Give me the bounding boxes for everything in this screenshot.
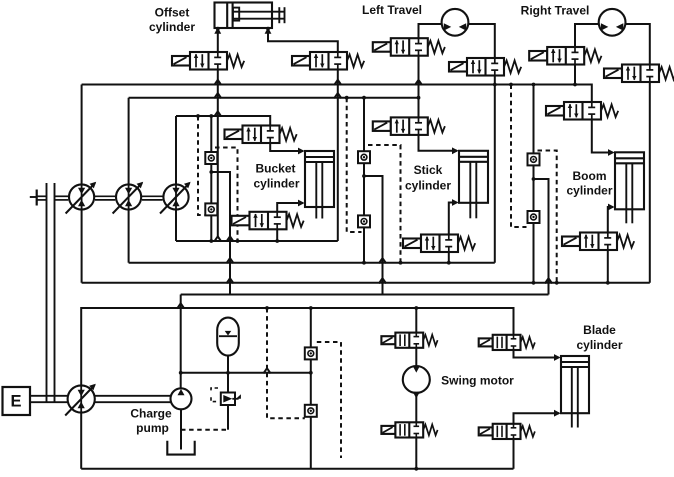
junction boom check line / secondary [532,177,536,181]
blade valve upper [479,335,535,350]
wire lower blade valve to cylinder rod port [514,413,560,424]
wire bottom check-valve line [310,308,312,469]
junction pilot supply / swing pilot [265,306,269,310]
wire right travel motor left port [575,24,599,47]
wire bucket check-valve line [210,116,212,241]
wire swing motor column [415,308,417,333]
crossing hop V1 riser over bus2 [214,93,221,98]
wire charge pump to tank [180,409,182,449]
svg-text:Offset: Offset [155,6,190,20]
pilot pump P4 (variable displacement) [65,384,96,416]
wire accumulator drop [227,356,229,373]
junction bus2 / stick check line [362,96,366,100]
svg-text:cylinder: cylinder [576,338,622,352]
junction bucket bus / lower valve [275,239,279,243]
pilot check valve bucket lower [205,203,217,215]
wire right travel motor right port [625,24,650,65]
wire left travel valve B return riser [494,76,496,263]
junction bus3 / bucket check line [209,114,213,118]
pump P2 (variable displacement) [113,182,144,214]
pilot check valve bucket upper [205,152,217,164]
right travel valve A [529,47,601,65]
wire right travel valve A riser [574,65,576,85]
stick cylinder head port arrow [452,147,459,154]
bucket cylinder head port arrow [298,148,305,155]
wire bucket valve to bucket cylinder head [270,143,303,151]
wire boom valve to boom cylinder head [592,120,613,153]
wire V2 return riser [337,70,339,242]
wire pump2 case return [128,210,130,262]
pilot line stick right [368,145,401,263]
pump P1 (variable displacement) [66,182,97,214]
pilot check valve stick upper [358,151,370,163]
svg-text:Blade: Blade [583,323,616,337]
shaft pilot pump to charge pump [95,396,171,402]
wire bucket return bus [176,240,338,242]
wire pump2 to supply bus 2 [128,98,130,184]
wire pump3 to supply bus 3 [175,116,177,184]
junction bus1 / boom check line [532,83,536,87]
drive shaft pump1 to pump2 [95,196,115,200]
wire swing valve to motor [415,348,417,366]
wire boom lower valve to cylinder rod port [608,207,613,233]
pilot check valve swing upper [305,347,317,359]
junction bus3 / bucket pilot line [196,114,200,118]
svg-text:cylinder: cylinder [405,179,451,193]
crossing hop V1 riser at bucket bus [214,236,221,241]
label Offset cylinder [149,6,195,35]
wire left travel motor right port [468,24,495,58]
stick cylinder rod port arrow [452,199,459,206]
swing motor [403,366,430,399]
blade cylinder head port arrow [554,354,561,361]
pilot line relief to tank [181,429,228,431]
wire supply bus 3 [176,116,270,126]
junction boom bus / pilot line [555,281,559,285]
right travel motor [599,9,626,36]
junction boom bus / check line [532,281,536,285]
wire offset cylinder right port to valve V2 [268,28,338,52]
pilot line swing section [267,308,305,418]
blade valve lower [479,424,535,439]
wire bucket lower valve return [276,229,278,241]
bucket valve upper [225,126,297,144]
svg-text:Swing motor: Swing motor [441,374,514,388]
junction bus2 / stick pilot line [345,96,349,100]
tank [167,441,194,455]
wire left travel valve A riser to stick valve [418,56,420,118]
label Bucket cylinder [253,162,299,191]
label Stick cylinder [405,163,451,193]
wire V1 return riser [217,70,219,238]
bucket cylinder [305,151,334,219]
svg-text:Right Travel: Right Travel [521,4,590,18]
label Right Travel [521,4,590,18]
drive shaft coupling [30,190,47,206]
wire stick check-valve line [363,98,365,263]
wire boom check-valve line [533,85,535,283]
pilot check valve swing lower [305,405,317,417]
label Swing motor [441,374,514,388]
drive shaft vertical pair [47,183,55,402]
offset valve V1 [172,52,244,70]
crossing hop boom secondary over boom bus [545,278,552,283]
boom valve upper [546,102,618,120]
wire pilot pump supply line [81,308,513,385]
wire motor to lower swing valve [415,393,417,423]
right travel valve B [604,65,674,83]
label Boom cylinder [566,169,612,198]
charge pump [171,388,192,409]
drive shaft to pump1 [55,196,69,200]
wire relief valve top [227,373,229,393]
wire supply bus 1 [82,85,592,103]
boom cylinder [615,152,644,223]
wire bottom return line [81,468,513,470]
stick valve upper [373,117,445,134]
pump P3 (variable displacement) [160,182,191,214]
left travel valve B [449,58,521,76]
pilot check valve boom upper [528,153,540,165]
engine shaft E to pilot pump [30,396,68,402]
svg-text:Stick: Stick [414,163,443,177]
svg-text:Bucket: Bucket [255,162,295,176]
wire boom lower valve return [607,250,609,283]
left travel valve A [373,38,445,56]
wire charge pump riser [180,295,182,391]
junction offset cylinder right port [266,27,270,31]
label Blade cylinder [576,323,622,352]
bucket valve lower [232,212,304,230]
wire pump1 to supply bus 1 [81,85,83,184]
svg-text:Charge: Charge [130,407,172,421]
accumulator [217,318,239,356]
svg-text:cylinder: cylinder [253,177,299,191]
boom cylinder rod port arrow [608,204,615,211]
crossing hop bucket secondary over stick bus [226,258,233,263]
junction bottom return / swing column [414,467,418,471]
junction bus2 / stick valve riser [417,96,421,100]
wire stick lower valve to cylinder rod port [449,203,457,235]
drive shaft pump2 to pump3 [142,196,163,200]
pilot line blade section [317,342,341,458]
crossing hop V2 riser over bus1 [334,80,341,85]
bucket cylinder rod port arrow [298,200,305,207]
wire left travel motor left port [419,24,443,38]
crossing hop stick secondary over stick bus [379,258,386,263]
blade cylinder rod port arrow [554,410,561,417]
wire lower blade valve return [513,439,515,469]
pilot line bucket right [215,148,238,242]
wire stick return bus [129,262,495,264]
junction stick bus / check line [362,261,366,265]
junction bucket bus / pilot line [236,239,240,243]
svg-text:pump: pump [136,421,169,435]
crossing hop stick riser over bus1 [415,80,422,85]
boom valve lower [562,233,634,251]
junction stick bus / lower valve [447,261,451,265]
offset cylinder right port arrow [265,27,272,34]
boom cylinder head port arrow [608,149,615,156]
wire stick secondary return [364,176,383,295]
wire lower swing valve return [415,438,417,469]
swing valve lower [381,422,437,437]
junction charge riser / relief header [179,371,183,375]
wire common return line [181,294,549,296]
offset cylinder [215,3,285,29]
junction bucket bus / check line [209,239,213,243]
stick valve lower [403,235,475,253]
wire supply bus 2 [129,97,419,99]
crossing hop bucket secondary over boom bus [226,278,233,283]
junction stick bus / pilot line [399,261,403,265]
blade cylinder [561,356,589,428]
crossing hop relief header over swing pilot [263,368,270,373]
junction pilot supply / check line [309,306,313,310]
crossing hop V2 riser over bus2 [334,93,341,98]
wire boom secondary return [534,179,549,295]
pilot line boom left [511,85,527,228]
pilot line boom right [538,151,557,283]
wire stick lower valve return [448,252,450,263]
wire boom return bus [82,282,650,284]
wire pilot relief header [181,372,311,374]
svg-text:Boom: Boom [573,169,607,183]
pilot relief valve [211,388,241,405]
svg-text:Left Travel: Left Travel [362,3,422,17]
svg-text:E: E [10,393,21,411]
junction relief header / accumulator [226,371,230,375]
svg-text:cylinder: cylinder [149,20,195,34]
swing valve upper [381,333,437,348]
junction bus1 / boom pilot line [509,83,513,87]
engine E box [3,387,31,415]
offset cylinder left port arrow [214,27,221,34]
left travel motor [442,9,469,36]
pilot check valve stick lower [358,215,370,227]
crossing hop V1 riser over bus3 [214,111,221,116]
label Charge pump [130,407,172,436]
pilot check valve boom lower [528,211,540,223]
wire blade valve to cylinder head [514,350,560,358]
wire offset valve V1 to cylinder left port [217,28,219,52]
junction pilot supply / swing column [414,306,418,310]
wire right travel valve B return riser [649,82,651,283]
offset valve V2 [292,52,364,70]
wire bucket secondary return [211,172,230,295]
junction relief header / check line [309,371,313,375]
junction bus1 / right travel valve A [573,83,577,87]
wire stick valve to stick cylinder head [419,135,458,151]
wire pump1 case return [81,210,83,282]
junction bucket check line / secondary [209,170,213,174]
stick cylinder [459,151,488,219]
wire relief valve bottom [227,405,229,430]
svg-text:cylinder: cylinder [566,184,612,198]
junction stick check line / secondary [362,174,366,178]
junction bus1 / left travel valve B [493,83,497,87]
pilot line bucket left [198,116,213,215]
wire pump3 case return [175,210,177,241]
crossing hop bucket secondary over bucket bus [226,236,233,241]
junction boom bus / lower valve [606,281,610,285]
wire bucket lower valve to cylinder rod port [277,203,303,212]
label Left Travel [362,3,422,17]
wire pilot pump to return [80,413,82,469]
crossing hop stick secondary over boom bus [379,278,386,283]
pilot line stick left [347,98,362,232]
crossing hop V1 riser over bus1 [214,80,221,85]
junction offset cylinder left port [216,27,220,31]
crossing hop charge riser over pilot supply [177,303,184,308]
